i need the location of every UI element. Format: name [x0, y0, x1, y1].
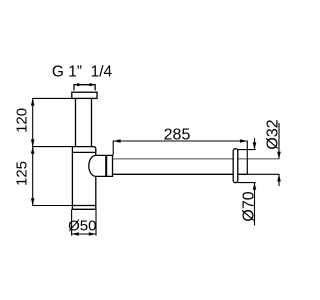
extension line middle (body top): [32, 146, 72, 148]
diameter 70 extension bottom: [238, 182, 256, 184]
arrow d70 top: [253, 142, 257, 149]
thread dim arrow left: [77, 83, 83, 86]
arrow d70 bottom: [253, 183, 257, 190]
svg-text:Ø70: Ø70: [241, 191, 258, 221]
dimension line 120/125: [32, 98, 34, 205]
thread dimension bracket: [74, 85, 95, 91]
svg-text:G 1” 1/4: G 1” 1/4: [52, 64, 113, 81]
diameter 70 extension top: [238, 149, 256, 151]
arrow 125 top: [31, 147, 35, 154]
d70 dim line bottom: [254, 183, 256, 226]
285 extension line left: [112, 141, 114, 156]
trap body: [72, 147, 95, 210]
arrow 285 right: [240, 139, 247, 143]
outlet ball and nut: [89, 155, 113, 176]
pipe top line: [113, 158, 248, 160]
arrow d50 left: [72, 232, 79, 236]
diameter 32 extension top: [247, 158, 279, 160]
thread dim arrow right: [86, 83, 92, 86]
dimension line diameter 50: [72, 233, 96, 235]
body bottom seam: [72, 205, 95, 207]
svg-text:Ø32: Ø32: [265, 119, 282, 149]
svg-text:120: 120: [14, 108, 31, 133]
inlet pipe: [76, 98, 92, 146]
d32 dim line top: [278, 123, 280, 159]
pipe bottom line: [113, 173, 248, 175]
arrow 120 top: [31, 98, 35, 105]
horizontal pipe: [113, 159, 248, 174]
extension line bottom (body bottom): [32, 205, 72, 207]
arrow 120 bottom: [31, 139, 35, 146]
diameter 50 extension right: [95, 209, 97, 235]
svg-text:125: 125: [14, 161, 31, 186]
svg-text:Ø50: Ø50: [68, 218, 96, 235]
inlet nut: [72, 92, 97, 98]
arrow d32 bottom: [277, 174, 281, 181]
pipe end line: [246, 159, 248, 174]
body collar line: [72, 151, 95, 153]
d70 dim line top: [254, 138, 256, 150]
d32 dim line bottom: [278, 174, 280, 186]
diameter 50 extension left: [71, 209, 73, 235]
arrow d32 top: [277, 152, 281, 159]
wall flange: [233, 149, 238, 183]
285 extension line right: [246, 141, 248, 159]
arrow d50 right: [89, 232, 96, 236]
outlet nut divider: [105, 155, 107, 176]
dimension line 285: [113, 140, 247, 142]
svg-text:285: 285: [164, 127, 191, 144]
arrow 285 left: [113, 139, 120, 143]
extension line top (nut base): [32, 97, 72, 99]
arrow 125 bottom: [31, 198, 35, 205]
diameter 32 extension bottom: [247, 173, 279, 175]
